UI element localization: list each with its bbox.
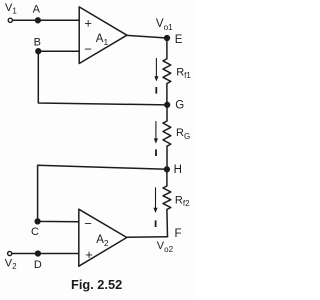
- svg-text:+: +: [84, 15, 92, 30]
- wire: [127, 236, 168, 239]
- current arrow I (RG): [154, 122, 158, 144]
- svg-text:A: A: [33, 3, 41, 15]
- node H: [165, 167, 170, 172]
- wire: [38, 51, 167, 105]
- label I (current Rf2): [155, 220, 157, 227]
- wire: [13, 19, 80, 21]
- op-amp A2: [79, 209, 127, 266]
- current arrow I (Rf2): [153, 188, 157, 213]
- node G: [165, 102, 170, 107]
- svg-text:−: −: [84, 216, 92, 231]
- resistor Rf1: [163, 38, 171, 105]
- svg-text:+: +: [85, 247, 93, 262]
- terminal V2: [8, 251, 12, 255]
- resistor RG: [163, 105, 171, 170]
- node E: [165, 36, 170, 41]
- label I (current Rf1): [155, 87, 157, 94]
- node A: [36, 18, 41, 23]
- wire: [38, 165, 167, 222]
- svg-text:D: D: [34, 259, 42, 271]
- svg-text:Fig. 2.52: Fig. 2.52: [71, 277, 122, 292]
- svg-text:E: E: [175, 34, 183, 46]
- wire: [127, 35, 167, 38]
- svg-text:G: G: [175, 100, 184, 112]
- op-amp A1: [79, 7, 127, 64]
- terminal V1: [8, 18, 12, 22]
- current arrow I (Rf1): [154, 58, 158, 81]
- svg-text:B: B: [34, 37, 41, 49]
- wire: [12, 253, 79, 255]
- wire: [38, 50, 79, 52]
- node D: [36, 251, 41, 256]
- node C: [35, 219, 40, 224]
- resistor Rf2: [163, 169, 171, 237]
- svg-text:H: H: [174, 164, 182, 176]
- svg-text:−: −: [84, 42, 92, 57]
- svg-text:F: F: [175, 228, 182, 240]
- node B: [36, 49, 41, 54]
- svg-text:C: C: [31, 226, 39, 238]
- label I (current RG): [155, 149, 157, 156]
